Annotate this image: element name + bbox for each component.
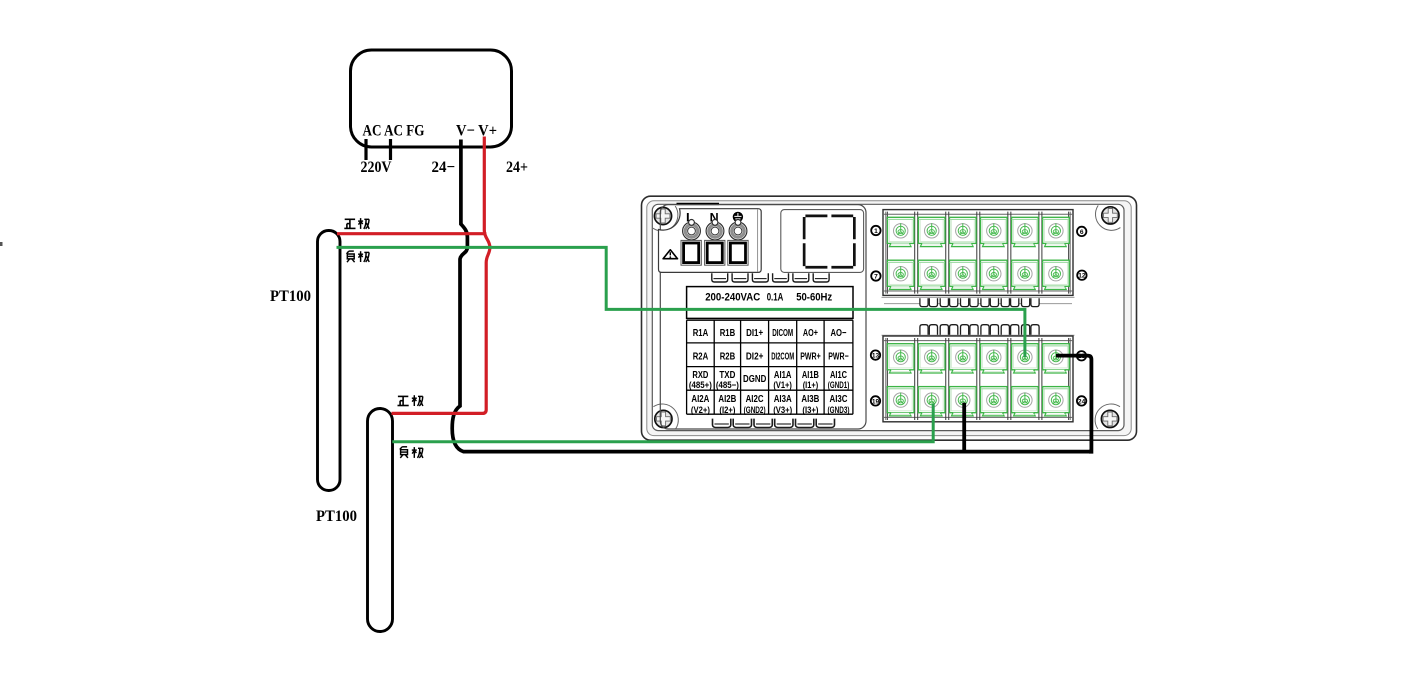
corner screw boss bl [653, 404, 678, 429]
svg-text:24−: 24− [432, 159, 456, 176]
terminal TB2 r2c1 [887, 387, 914, 416]
terminal number 6 [1077, 227, 1086, 236]
terminal block TB1 outer [883, 210, 1073, 296]
svg-text:(GND3): (GND3) [828, 405, 850, 415]
terminal TB1 r1c6 [1043, 217, 1070, 246]
svg-text:DI2COM: DI2COM [771, 351, 794, 362]
svg-text:AO−: AO− [831, 328, 847, 339]
svg-text:13: 13 [872, 353, 880, 360]
svg-text:AI2C: AI2C [746, 394, 764, 405]
corner screw boss tl [653, 206, 678, 231]
terminal block TB2 outer [883, 336, 1073, 422]
terminal TB2 r1c3 [950, 344, 977, 373]
svg-text:(V2+): (V2+) [691, 405, 710, 415]
module separator x=947.25 [946, 338, 949, 420]
module separator x=1040.4 [1039, 338, 1042, 420]
ring terminal x=715.0 [706, 220, 724, 240]
corner screw br [1101, 410, 1118, 427]
terminal TB2 r2c3 [950, 387, 977, 416]
svg-text:(I3+): (I3+) [802, 405, 818, 415]
svg-text:PWR−: PWR− [828, 351, 849, 362]
terminal TB2 r1c5 [1012, 344, 1039, 373]
terminal TB2 r1c6 [1043, 344, 1070, 373]
terminal TB2 r1c2 [918, 344, 945, 373]
svg-text:DI2+: DI2+ [746, 351, 764, 362]
ring terminal x=738.0 [729, 220, 747, 240]
svg-text:PT100: PT100 [270, 288, 311, 305]
terminal TB1 r2c6 [1043, 260, 1070, 289]
svg-text:AO+: AO+ [803, 328, 818, 339]
module slot bracket [804, 216, 854, 267]
terminal number 19 [871, 396, 880, 405]
terminal number 18 [1077, 351, 1086, 360]
terminal number 12 [1077, 271, 1086, 280]
terminal TB1 r1c2 [918, 217, 945, 246]
svg-text:R2A: R2A [693, 351, 709, 362]
svg-text:(I1+): (I1+) [803, 380, 819, 390]
module separator x=947.25 [946, 212, 949, 294]
terminal number 1 [871, 226, 880, 235]
square terminal x=727.8 [728, 240, 748, 265]
svg-text:R1A: R1A [693, 328, 709, 339]
terminal TB1 r1c1 [887, 217, 914, 246]
module separator x=916.2 [915, 338, 918, 420]
terminal TB1 r2c1 [887, 260, 914, 289]
svg-text:AI3B: AI3B [801, 394, 819, 405]
power supply PS1 box [351, 50, 512, 147]
device panel face [652, 204, 1124, 430]
ring terminal x=691.5 [683, 220, 701, 240]
label 正极 (RT2 positive) [398, 395, 423, 406]
corner screw tl [654, 207, 671, 224]
TB1 bottom cap [882, 297, 1075, 303]
terminal number 13 [871, 350, 880, 359]
svg-text:RXD: RXD [692, 370, 708, 381]
svg-text:AI1B: AI1B [802, 370, 819, 381]
svg-text:DGND: DGND [743, 374, 766, 385]
svg-text:24+: 24+ [506, 159, 528, 176]
corner screw tr [1102, 207, 1119, 224]
terminal TB2 r1c1 [887, 344, 914, 373]
svg-text:R2B: R2B [720, 351, 736, 362]
terminal TB1 r2c3 [950, 260, 977, 289]
square terminal x=704.6 [705, 240, 725, 265]
svg-text:AI1C: AI1C [830, 370, 847, 381]
svg-text:TXD: TXD [719, 370, 735, 381]
svg-text:(485−): (485−) [716, 380, 739, 390]
device outer frame [642, 196, 1137, 440]
wire: 220V tick stubs already above; V- black wire from PS to panel bottom rail [452, 140, 1091, 452]
stray mark at left edge [0, 242, 3, 246]
terminal TB1 r2c5 [1012, 260, 1039, 289]
svg-text:V− V+: V− V+ [456, 123, 497, 140]
label 正极 (RT1 positive) [344, 218, 369, 229]
corner screw boss br [1095, 404, 1120, 429]
svg-text:19: 19 [872, 398, 880, 405]
terminal TB2 r2c5 [1012, 387, 1039, 416]
module separator x=978.3 [977, 212, 980, 294]
terminal number 24 [1077, 396, 1086, 405]
svg-text:7: 7 [874, 273, 878, 280]
svg-text:24: 24 [1078, 398, 1086, 405]
warning triangle [663, 250, 677, 259]
module separator x=916.2 [915, 212, 918, 294]
terminal TB1 r2c2 [918, 260, 945, 289]
svg-text:AI2A: AI2A [691, 394, 709, 405]
square terminal x=681.0 [681, 240, 701, 265]
svg-text:AC AC FG: AC AC FG [363, 123, 425, 140]
TB2 top cap [882, 334, 1075, 336]
svg-text:AI2B: AI2B [718, 394, 736, 405]
earth symbol [733, 212, 743, 222]
left section outline [660, 205, 866, 429]
wire: black from terminal 18 down to bottom rail [1056, 356, 1091, 452]
svg-text:50-60Hz: 50-60Hz [796, 291, 832, 303]
svg-text:PWR+: PWR+ [800, 351, 821, 362]
corner screw boss tr [1095, 205, 1120, 230]
connector tabs row (power section) [712, 273, 728, 282]
svg-text:6: 6 [1080, 229, 1084, 236]
connector tabs row (below table) [713, 419, 731, 428]
dark top edge segment [677, 203, 720, 205]
svg-text:(GND2): (GND2) [744, 405, 766, 415]
svg-text:AI1A: AI1A [774, 370, 792, 381]
PT100 sensor RT2 body [368, 409, 393, 632]
terminal designation table [687, 320, 853, 414]
svg-text:1: 1 [874, 228, 878, 235]
svg-text:12: 12 [1078, 273, 1086, 280]
label 负极 (RT2 negative) [400, 447, 423, 458]
svg-text:220V: 220V [361, 159, 392, 176]
module slot panel [781, 210, 864, 273]
terminal TB2 r2c6 [1043, 387, 1070, 416]
terminal TB1 r2c4 [981, 260, 1008, 289]
PT100 sensor RT1 body [318, 231, 341, 491]
svg-text:200-240VAC: 200-240VAC [705, 291, 760, 303]
svg-text:PT100: PT100 [316, 508, 357, 525]
wire: red positive lead RT1 [337, 232, 486, 235]
device mid frame [647, 201, 1131, 436]
terminal TB2 r1c4 [981, 344, 1008, 373]
wire: green negative lead RT2 to terminal 20 [392, 404, 933, 442]
wire: green negative lead RT1 to terminal 17 [337, 247, 1025, 357]
terminal TB2 r2c2 [918, 387, 945, 416]
module separator x=1009.35 [1008, 338, 1011, 420]
connector tabs row above TB2 [920, 325, 928, 336]
terminal TB1 r1c5 [1012, 217, 1039, 246]
module separator x=1009.35 [1008, 212, 1011, 294]
connector tabs row below TB1 [920, 298, 928, 306]
ratings label box [687, 287, 853, 319]
svg-text:AI3A: AI3A [774, 394, 792, 405]
terminal number 7 [871, 271, 880, 280]
svg-text:(485+): (485+) [689, 380, 712, 390]
svg-text:AI3C: AI3C [830, 394, 848, 405]
svg-text:0.1A: 0.1A [767, 291, 784, 303]
terminal TB1 r1c3 [950, 217, 977, 246]
power input panel [659, 209, 762, 273]
terminal TB2 r2c4 [981, 387, 1008, 416]
wire: red V+ vertical with jog, to RT2 positive [392, 137, 490, 414]
terminal tick AC2 [389, 139, 392, 160]
terminal TB1 r1c4 [981, 217, 1008, 246]
wire: black from terminal 21 down to bottom rail [962, 403, 966, 452]
svg-text:DI1+: DI1+ [746, 328, 763, 339]
svg-text:(I2+): (I2+) [719, 405, 735, 415]
svg-text:(V3+): (V3+) [773, 405, 792, 415]
module separator x=1040.4 [1039, 212, 1042, 294]
corner screw bl [655, 410, 672, 427]
svg-text:(GND1): (GND1) [828, 380, 850, 390]
svg-text:R1B: R1B [720, 328, 736, 339]
svg-text:DICOM: DICOM [772, 328, 793, 339]
label 负极 (RT1 negative) [347, 251, 370, 262]
module separator x=978.3 [977, 338, 980, 420]
svg-text:(V1+): (V1+) [773, 380, 792, 390]
terminal tick AC1 [364, 139, 367, 160]
